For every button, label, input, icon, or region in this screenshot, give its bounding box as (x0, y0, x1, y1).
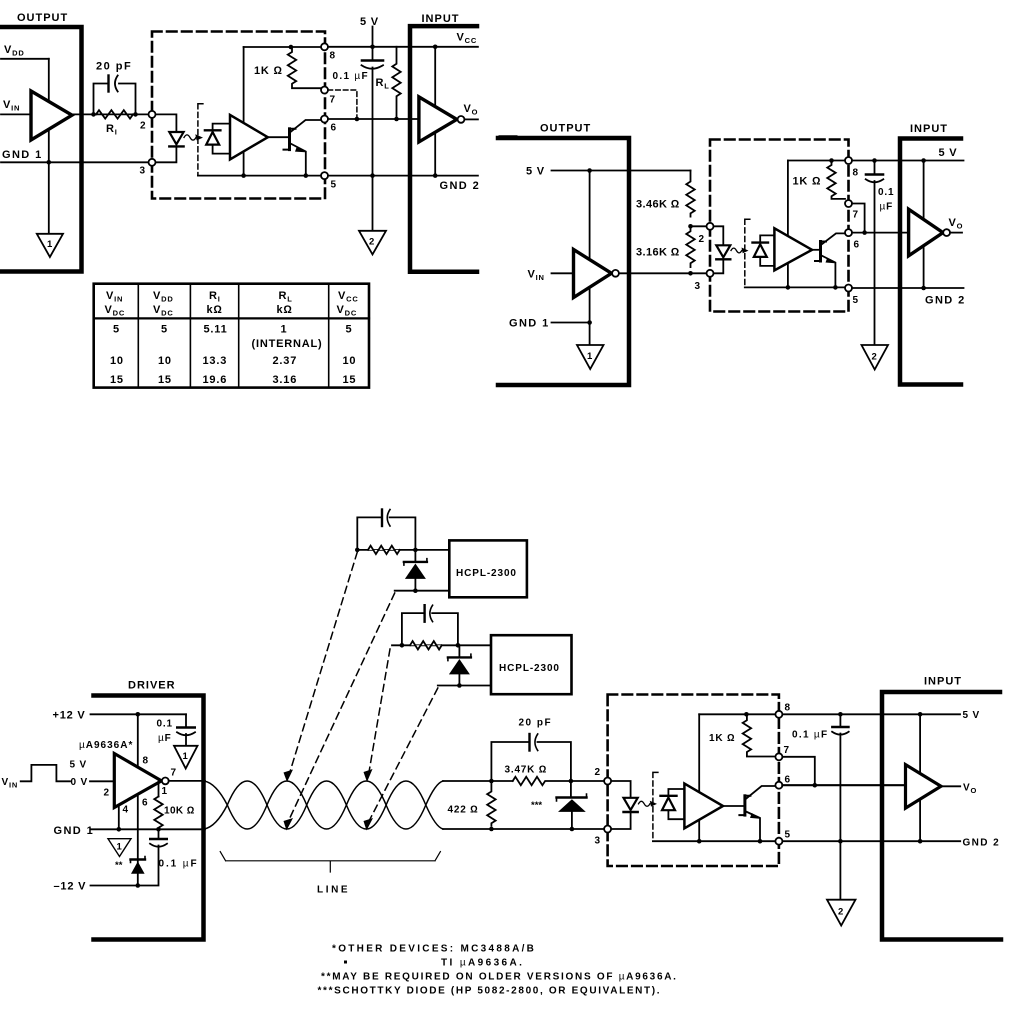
wire buffer output to pin 3 (619, 272, 707, 274)
svg-text:***SCHOTTKY DIODE (HP 5082-280: ***SCHOTTKY DIODE (HP 5082-2800, OR EQUI… (318, 986, 662, 997)
amplifier A1 (230, 115, 268, 159)
junction dot (758, 839, 763, 844)
svg-text:2: 2 (595, 767, 601, 778)
pin 2 (149, 111, 156, 118)
wire top rail to pin 8 (244, 46, 321, 48)
transistor Q1 (284, 120, 322, 176)
svg-text:HCPL-2300: HCPL-2300 (499, 663, 560, 674)
svg-text:VDC: VDC (153, 304, 174, 318)
svg-text:5 V: 5 V (963, 710, 980, 721)
wire pin4 to GND1 (118, 806, 120, 829)
optocoupler U5 dashed package (710, 140, 849, 312)
wire pin6 output row (328, 118, 419, 120)
svg-text:1: 1 (117, 842, 123, 853)
junction dot (304, 173, 309, 178)
wire 5V drop (372, 27, 374, 61)
svg-text:OUTPUT: OUTPUT (540, 123, 591, 135)
svg-text:VIN: VIN (3, 99, 20, 113)
junction dot (355, 548, 360, 553)
wire 10K tap (158, 782, 160, 797)
capacitor 0.1 uF (circuit 3) (792, 714, 849, 899)
resistor (stub 2) (410, 641, 442, 649)
capacitor 20 pF (94, 61, 136, 115)
junction dot (370, 45, 375, 50)
junction dot (136, 712, 141, 717)
svg-text:VO: VO (464, 103, 479, 117)
wire VO (950, 232, 962, 234)
ground 1 symbol (37, 234, 63, 257)
svg-text:5 V: 5 V (939, 147, 958, 159)
wire 5V feed through buffer (919, 714, 921, 841)
svg-text:10K Ω: 10K Ω (164, 806, 195, 817)
DRIVER box (94, 696, 204, 940)
svg-text:VCC: VCC (457, 32, 478, 46)
junction dot (918, 839, 923, 844)
wire ground rail to pin 5 (745, 286, 845, 288)
pin 5 (775, 838, 782, 845)
svg-text:13.3: 13.3 (203, 355, 228, 367)
dashed tap wires (288, 552, 438, 823)
INPUT box (circuit 1) (410, 26, 477, 272)
schottky diode (may be required) (115, 857, 145, 874)
ground 2 symbol (circuit 2) (862, 345, 889, 370)
driver amp U7 (114, 754, 161, 808)
svg-text:5 V: 5 V (70, 760, 87, 771)
svg-text:1K Ω: 1K Ω (254, 65, 283, 77)
svg-text:LINE: LINE (317, 885, 350, 896)
svg-text:µF: µF (880, 202, 893, 213)
inner shield dashed (198, 104, 206, 176)
junction dot (921, 158, 926, 163)
svg-text:RL: RL (376, 77, 390, 91)
wire VO (941, 785, 960, 787)
svg-text:***: *** (531, 800, 542, 811)
junction dot (433, 45, 438, 50)
resistor RI (96, 110, 133, 118)
svg-text:6: 6 (142, 798, 148, 809)
LED D5 (611, 781, 638, 829)
svg-text:4: 4 (123, 805, 129, 816)
wire amp power feed (698, 714, 700, 841)
buffer U9 input stage (906, 765, 942, 809)
wire +12V rail (91, 713, 187, 715)
INPUT box (circuit 2) (900, 139, 961, 385)
svg-text:INPUT: INPUT (910, 123, 948, 135)
LED D3 (714, 226, 731, 273)
svg-text:0.1 µF: 0.1 µF (792, 730, 828, 741)
junction dot (456, 643, 461, 648)
junction dot (355, 117, 360, 122)
wire line top continuation (443, 780, 513, 782)
svg-text:1: 1 (183, 751, 189, 762)
svg-text:10: 10 (343, 355, 357, 367)
junction dot (117, 827, 122, 832)
svg-text:5.11: 5.11 (204, 324, 228, 336)
svg-text:µF: µF (158, 733, 171, 744)
light arrow (731, 248, 749, 254)
pin 5 (845, 285, 852, 292)
inner shield dashed (745, 219, 752, 287)
junction dot (569, 779, 574, 784)
box HCPL-2300 (449, 540, 527, 597)
pin 8 (845, 157, 852, 164)
wire VDD (1, 58, 49, 60)
wire ground rail to pin 5 (198, 175, 321, 177)
svg-text:2: 2 (369, 237, 374, 248)
svg-text:**MAY BE REQUIRED ON OLDER VER: **MAY BE REQUIRED ON OLDER VERSIONS OF µ… (321, 972, 678, 983)
svg-text:6: 6 (331, 123, 337, 134)
svg-text:5: 5 (785, 830, 791, 841)
svg-text:5: 5 (331, 180, 337, 191)
svg-text:VIN: VIN (528, 269, 545, 283)
svg-text:3: 3 (695, 281, 701, 292)
resistor 1K (254, 47, 321, 88)
output bubble (162, 778, 169, 785)
photodiode D4 (753, 235, 775, 266)
pin 7 (321, 87, 328, 94)
svg-text:3: 3 (140, 166, 146, 177)
photodiode D6 (661, 789, 685, 819)
output bubble (458, 116, 465, 123)
pin 3 (604, 826, 611, 833)
junction dot (833, 285, 838, 290)
svg-text:kΩ: kΩ (277, 304, 293, 316)
svg-text:3.47K Ω: 3.47K Ω (505, 765, 548, 776)
svg-text:8: 8 (785, 703, 791, 714)
svg-text:422 Ω: 422 Ω (448, 805, 479, 816)
svg-text:0.1 µF: 0.1 µF (159, 859, 199, 870)
junction dot (587, 320, 592, 325)
ground 2 symbol (359, 231, 386, 255)
wire driver output (169, 780, 205, 782)
buffer U1 output stage (31, 91, 72, 140)
resistor 1K (circuit 2) (793, 161, 846, 199)
junction dot (489, 827, 494, 832)
svg-text:(INTERNAL): (INTERNAL) (252, 338, 323, 350)
svg-text:3.16: 3.16 (273, 374, 298, 386)
svg-text:2: 2 (699, 234, 705, 245)
svg-text:2: 2 (140, 121, 146, 132)
resistor 3.47K (505, 765, 605, 786)
svg-text:20 pF: 20 pF (96, 61, 132, 73)
wire node to pin 2 (691, 225, 708, 227)
pin 6 (321, 116, 328, 123)
OUTPUT box (circuit 2) (498, 138, 629, 385)
svg-text:INPUT: INPUT (924, 676, 962, 688)
wire top stub (357, 549, 449, 551)
wire GND1 (552, 322, 590, 324)
svg-text:7: 7 (171, 768, 177, 779)
output bubble (943, 229, 950, 236)
svg-text:10: 10 (110, 355, 124, 367)
box HCPL-2300 (491, 635, 572, 694)
svg-text:3.16K Ω: 3.16K Ω (636, 247, 680, 259)
junction dot (587, 168, 592, 173)
svg-text:GND 1: GND 1 (2, 149, 43, 161)
resistor 3.46K (636, 171, 695, 217)
junction dot (413, 548, 418, 553)
svg-text:8: 8 (330, 51, 336, 62)
light arrow (184, 134, 203, 140)
svg-text:15: 15 (343, 374, 357, 386)
separator dash (500, 135, 516, 138)
capacitor 0.1 uF (circuit 2) (866, 161, 895, 346)
wire 5V rail (552, 170, 691, 172)
svg-text:19.6: 19.6 (203, 374, 228, 386)
junction dot (872, 158, 877, 163)
resistor 422 (448, 781, 496, 826)
svg-text:VCC: VCC (338, 290, 359, 304)
junction dot (489, 779, 494, 784)
wire -12V rail (91, 885, 138, 887)
junction dot (786, 285, 791, 290)
transistor Q2 (815, 233, 845, 287)
capacitor 0.1 uF (+12V bypass) (157, 714, 196, 745)
svg-text:*OTHER DEVICES: MC3488A/B: *OTHER DEVICES: MC3488A/B (332, 944, 536, 955)
junction dot (400, 643, 405, 648)
svg-text:VDC: VDC (337, 304, 358, 318)
schottky diode (stub 1) (414, 550, 416, 562)
wire VIN (1, 113, 31, 115)
junction dot (156, 827, 161, 832)
amplifier A3 (684, 784, 723, 829)
node VIN pulse (2, 760, 115, 790)
svg-text:GND 2: GND 2 (925, 295, 966, 307)
svg-text:VO: VO (949, 217, 964, 231)
junction dot (918, 712, 923, 717)
junction dot (829, 158, 834, 163)
light arrow (639, 801, 658, 807)
svg-text:VIN: VIN (106, 290, 123, 304)
svg-text:5: 5 (853, 295, 859, 306)
LINE brace (220, 852, 440, 896)
svg-text:TI µA9636A.: TI µA9636A. (441, 958, 524, 969)
parameter table (94, 284, 369, 388)
wire GND2 (328, 175, 478, 177)
svg-text:5: 5 (346, 324, 353, 336)
capacitor 0.1 uF (-12V bypass) (138, 829, 199, 885)
transistor Q3 (739, 786, 775, 841)
wire VIN (552, 272, 574, 274)
svg-text:GND 1: GND 1 (54, 825, 95, 837)
footnotes (318, 944, 678, 997)
resistor 1K (circuit 3) (709, 714, 775, 756)
wire top rail to pin 8 (788, 160, 845, 162)
svg-text:VDD: VDD (153, 290, 174, 304)
pin 3 (149, 159, 156, 166)
buffer U3 input stage (419, 97, 457, 142)
wire V+ / V- feed through driver (137, 714, 139, 885)
svg-text:–12 V: –12 V (54, 881, 87, 893)
svg-text:15: 15 (110, 374, 124, 386)
wire pin8 to 5V (782, 713, 960, 715)
capacitor (stub 2) (402, 613, 458, 645)
wire pin8 to VCC (328, 46, 478, 48)
svg-text:VDC: VDC (105, 304, 126, 318)
svg-text:HCPL-2300: HCPL-2300 (456, 568, 517, 579)
svg-text:RL: RL (279, 290, 293, 304)
svg-text:RI: RI (106, 123, 118, 137)
svg-text:VO: VO (963, 783, 977, 796)
junction dot (838, 712, 843, 717)
svg-text:1: 1 (47, 239, 53, 250)
junction dot (433, 173, 438, 178)
wire base (812, 249, 819, 251)
wire 5V feed through buffer to GND1 (589, 171, 591, 345)
pin 2 (604, 778, 611, 785)
inner shield dashed (653, 772, 660, 841)
svg-text:0.1: 0.1 (157, 719, 173, 730)
svg-text:2: 2 (838, 907, 843, 918)
LED D1 (156, 114, 184, 162)
svg-text:6: 6 (854, 240, 860, 251)
svg-text:2.37: 2.37 (273, 355, 298, 367)
pin 8 (321, 43, 328, 50)
wire VDD feed vertical through buffer to GND1 (48, 59, 50, 234)
wire pin6 output row (782, 784, 905, 786)
svg-text:7: 7 (784, 745, 790, 756)
amplifier A2 (774, 228, 812, 270)
svg-text:7: 7 (853, 210, 859, 221)
svg-text:1K Ω: 1K Ω (793, 176, 822, 188)
wire VO (464, 118, 478, 120)
resistor 10K (154, 797, 195, 830)
junction dot (394, 117, 399, 122)
junction dot (862, 230, 867, 235)
svg-text:**: ** (115, 860, 123, 871)
capacitor 20 pF (circuit 3) (491, 718, 571, 782)
wire dashed pin7 option (328, 90, 357, 119)
wire GND2 (782, 840, 960, 842)
pin 6 (775, 782, 782, 789)
wire ground rail to pin 5 (653, 840, 776, 842)
svg-text:5 V: 5 V (360, 16, 379, 28)
svg-text:0 V: 0 V (71, 777, 88, 788)
svg-text:INPUT: INPUT (422, 13, 460, 25)
svg-text:1: 1 (587, 351, 593, 362)
svg-text:7: 7 (330, 95, 336, 106)
svg-text:+12 V: +12 V (53, 710, 86, 722)
wire pin6 output row (852, 232, 909, 234)
ground 1 symbol (driver) (108, 839, 131, 857)
wire bottom stub (438, 685, 491, 687)
twisted pair line (204, 781, 443, 829)
junction dot (688, 271, 693, 276)
svg-text:1: 1 (281, 324, 288, 336)
svg-text:VDD: VDD (4, 44, 25, 58)
svg-text:GND 2: GND 2 (963, 838, 1001, 849)
svg-text:1K Ω: 1K Ω (709, 733, 735, 744)
schottky diode (line clamp) (531, 781, 587, 829)
tap arrowheads (284, 769, 374, 831)
INPUT box (circuit 3) (882, 692, 1001, 940)
svg-text:2: 2 (872, 352, 877, 363)
pin 3 (707, 270, 714, 277)
wire amp power feed (243, 47, 245, 176)
svg-text:8: 8 (853, 168, 859, 179)
svg-text:3.46K Ω: 3.46K Ω (636, 199, 680, 211)
svg-text:3: 3 (595, 836, 601, 847)
junction dot (813, 783, 818, 788)
svg-text:5 V: 5 V (526, 166, 545, 178)
wire top rail to pin 8 (699, 713, 775, 715)
wire amp power feed (787, 161, 789, 288)
pin 7 (845, 200, 852, 207)
wire line bottom continuation (443, 828, 605, 830)
svg-text:5: 5 (161, 324, 168, 336)
wire base (268, 136, 288, 138)
wire bottom stub (395, 590, 450, 592)
svg-text:8: 8 (143, 756, 149, 767)
svg-text:0.1: 0.1 (878, 187, 894, 198)
pin 2 (707, 223, 714, 230)
wire pin8 to 5V (852, 160, 964, 162)
junction dot (457, 683, 462, 688)
junction dot (91, 112, 96, 117)
OUTPUT box (circuit 1) (0, 27, 82, 272)
junction dot (47, 160, 52, 165)
resistor (stub 1) (368, 546, 400, 554)
wire buffer output to pin 2 (72, 113, 149, 115)
junction dot (289, 45, 294, 50)
ground 1 symbol (577, 345, 604, 369)
resistor 3.16K (636, 226, 695, 267)
wire pin7 to output (782, 757, 814, 785)
svg-text:RI: RI (209, 290, 221, 304)
svg-text:kΩ: kΩ (207, 304, 223, 316)
HCPL-2300 stub 2 (392, 605, 572, 694)
wire GND1 to pin 3 (1, 161, 149, 163)
optocoupler U8 dashed package (608, 695, 779, 867)
wire pin7 to output (852, 204, 865, 233)
svg-text:µA9636A*: µA9636A* (79, 740, 133, 751)
pin 8 (775, 711, 782, 718)
capacitor 0.1 uF (333, 61, 384, 231)
junction dot (136, 883, 141, 888)
wire base (723, 805, 744, 807)
svg-text:1: 1 (162, 786, 168, 797)
svg-text:DRIVER: DRIVER (128, 680, 176, 692)
junction dot (241, 173, 246, 178)
svg-text:15: 15 (158, 374, 172, 386)
schottky diode (stub 2) (458, 645, 460, 657)
junction dot (921, 286, 926, 291)
junction dot (133, 112, 138, 117)
svg-text:OUTPUT: OUTPUT (17, 12, 68, 24)
junction dot (744, 712, 749, 717)
wire GND1 row (91, 828, 206, 830)
wire top stub (392, 644, 491, 646)
pin 6 (845, 229, 852, 236)
svg-text:VIN: VIN (2, 777, 19, 790)
svg-text:10: 10 (158, 355, 172, 367)
resistor RL (376, 47, 401, 116)
buffer U4 output stage (574, 250, 612, 298)
svg-text:2: 2 (104, 788, 110, 799)
wire VCC feed through buffer (434, 47, 436, 176)
output bubble (612, 270, 619, 277)
ground 2 symbol (circuit 3) (827, 900, 856, 926)
svg-text:6: 6 (785, 775, 791, 786)
svg-text:GND 1: GND 1 (509, 318, 550, 330)
junction dot (688, 224, 693, 229)
junction dot (570, 827, 575, 832)
wire GND2 (852, 287, 964, 289)
wire VCC feed through buffer (923, 161, 925, 289)
ground 1 symbol (bypass) (174, 746, 198, 769)
svg-text:0.1 µF: 0.1 µF (333, 71, 369, 82)
junction dot (697, 839, 702, 844)
